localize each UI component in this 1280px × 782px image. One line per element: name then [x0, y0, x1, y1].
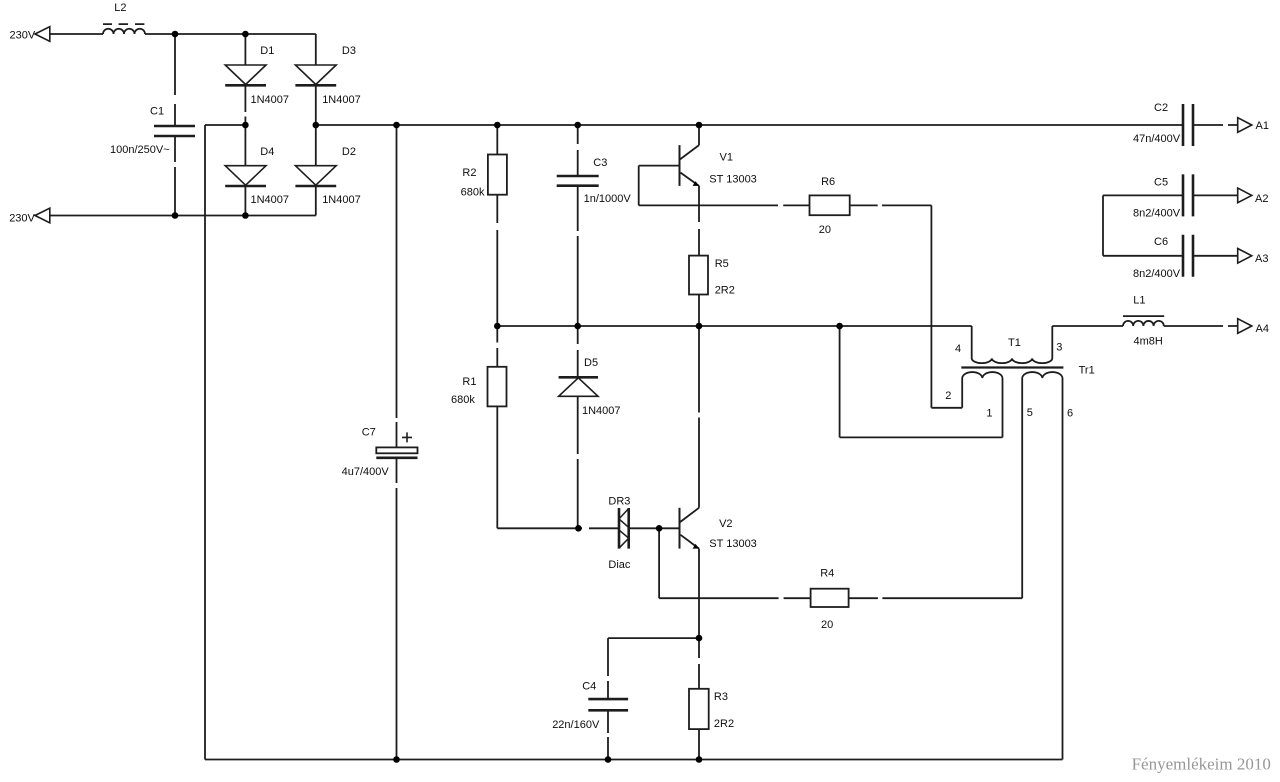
svg-text:8n2/400V: 8n2/400V	[1133, 207, 1181, 219]
svg-text:L2: L2	[114, 2, 126, 14]
svg-text:D3: D3	[342, 45, 356, 57]
svg-text:2R2: 2R2	[714, 718, 734, 730]
svg-text:ST 13003: ST 13003	[709, 538, 757, 550]
svg-text:1N4007: 1N4007	[251, 194, 290, 206]
svg-text:V2: V2	[719, 518, 732, 530]
svg-text:R6: R6	[821, 176, 835, 188]
svg-text:4: 4	[955, 343, 961, 355]
svg-text:1: 1	[986, 408, 992, 420]
svg-text:230V: 230V	[9, 213, 35, 225]
svg-text:6: 6	[1067, 408, 1073, 420]
svg-text:R2: R2	[462, 167, 476, 179]
svg-text:8n2/400V: 8n2/400V	[1133, 268, 1181, 280]
svg-text:D4: D4	[260, 146, 274, 158]
svg-text:100n/250V~: 100n/250V~	[110, 144, 170, 156]
svg-text:D2: D2	[342, 146, 356, 158]
svg-text:C3: C3	[593, 157, 607, 169]
svg-text:C2: C2	[1154, 102, 1168, 114]
svg-text:1N4007: 1N4007	[322, 194, 361, 206]
svg-text:Diac: Diac	[608, 559, 631, 571]
svg-text:Fényemlékeim 2010: Fényemlékeim 2010	[1132, 755, 1271, 774]
svg-text:47n/400V: 47n/400V	[1133, 133, 1181, 145]
svg-text:C1: C1	[150, 105, 164, 117]
svg-text:A3: A3	[1255, 253, 1268, 265]
svg-text:1N4007: 1N4007	[322, 94, 361, 106]
svg-text:C6: C6	[1154, 236, 1168, 248]
svg-text:1N4007: 1N4007	[582, 405, 621, 417]
svg-text:20: 20	[819, 224, 831, 236]
svg-text:A4: A4	[1256, 323, 1269, 335]
svg-text:A2: A2	[1255, 193, 1268, 205]
svg-text:V1: V1	[720, 152, 733, 164]
svg-text:R4: R4	[820, 568, 834, 580]
svg-text:230V: 230V	[10, 30, 36, 42]
svg-text:20: 20	[821, 619, 833, 631]
svg-text:D1: D1	[260, 45, 274, 57]
svg-text:680k: 680k	[451, 394, 475, 406]
svg-text:2: 2	[945, 390, 951, 402]
svg-text:R3: R3	[714, 691, 728, 703]
svg-text:4u7/400V: 4u7/400V	[342, 466, 390, 478]
svg-text:1n/1000V: 1n/1000V	[584, 193, 632, 205]
svg-text:A1: A1	[1256, 120, 1269, 132]
svg-text:C4: C4	[582, 681, 596, 693]
svg-text:T1: T1	[1008, 337, 1021, 349]
svg-text:4m8H: 4m8H	[1134, 336, 1163, 348]
svg-text:C5: C5	[1154, 177, 1168, 189]
svg-text:R1: R1	[462, 376, 476, 388]
svg-text:1N4007: 1N4007	[251, 94, 290, 106]
svg-text:Tr1: Tr1	[1079, 365, 1095, 377]
svg-text:5: 5	[1027, 407, 1033, 419]
svg-text:3: 3	[1056, 341, 1062, 353]
svg-text:L1: L1	[1133, 295, 1145, 307]
svg-text:ST 13003: ST 13003	[709, 173, 757, 185]
svg-text:D5: D5	[584, 357, 598, 369]
svg-text:DR3: DR3	[608, 496, 630, 508]
svg-text:22n/160V: 22n/160V	[552, 719, 600, 731]
svg-text:680k: 680k	[461, 186, 485, 198]
svg-text:R5: R5	[715, 258, 729, 270]
svg-text:C7: C7	[362, 427, 376, 439]
svg-text:2R2: 2R2	[715, 285, 735, 297]
